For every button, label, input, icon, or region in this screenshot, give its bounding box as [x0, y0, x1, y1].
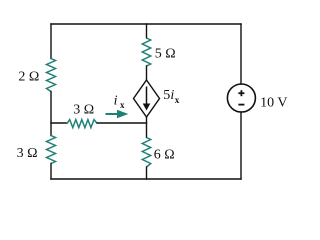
- source arrow down: [143, 87, 151, 111]
- resistor R1 2ohm: [47, 59, 56, 92]
- wire left upper: [50, 24, 52, 59]
- svg-text:i: i: [170, 88, 174, 103]
- resistor R3 3ohm horizontal: [67, 120, 97, 128]
- current arrow ix: [106, 110, 129, 119]
- wire left lower: [50, 164, 52, 180]
- svg-text:5: 5: [163, 88, 170, 103]
- svg-text:6 Ω: 6 Ω: [154, 148, 175, 163]
- minus sign: [238, 104, 244, 106]
- wire mid-bottom stub: [146, 167, 148, 179]
- wire above source: [146, 66, 148, 80]
- svg-text:x: x: [120, 100, 125, 110]
- resistor R5 6ohm: [142, 138, 150, 168]
- resistor R4 5ohm: [142, 38, 150, 66]
- wire right upper: [240, 24, 242, 84]
- wire top: [51, 23, 241, 25]
- resistor R2 3ohm left: [47, 136, 56, 164]
- voltage source V1: [227, 84, 255, 112]
- svg-text:i: i: [114, 94, 118, 109]
- wire below source: [146, 117, 148, 138]
- wire left middle: [50, 92, 52, 136]
- svg-text:x: x: [175, 95, 180, 105]
- svg-text:3 Ω: 3 Ω: [73, 102, 94, 117]
- svg-text:5 Ω: 5 Ω: [155, 47, 176, 62]
- wire bottom: [51, 178, 241, 180]
- svg-text:10 V: 10 V: [260, 96, 287, 111]
- wire mid-left: [51, 122, 67, 124]
- svg-text:2 Ω: 2 Ω: [18, 69, 39, 84]
- svg-text:3 Ω: 3 Ω: [17, 146, 38, 161]
- wire mid-top stub: [146, 24, 148, 38]
- plus sign: [238, 90, 244, 96]
- wire mid-right: [97, 122, 146, 124]
- dependent current source U1 diamond: [134, 80, 160, 117]
- wire right lower: [240, 112, 242, 179]
